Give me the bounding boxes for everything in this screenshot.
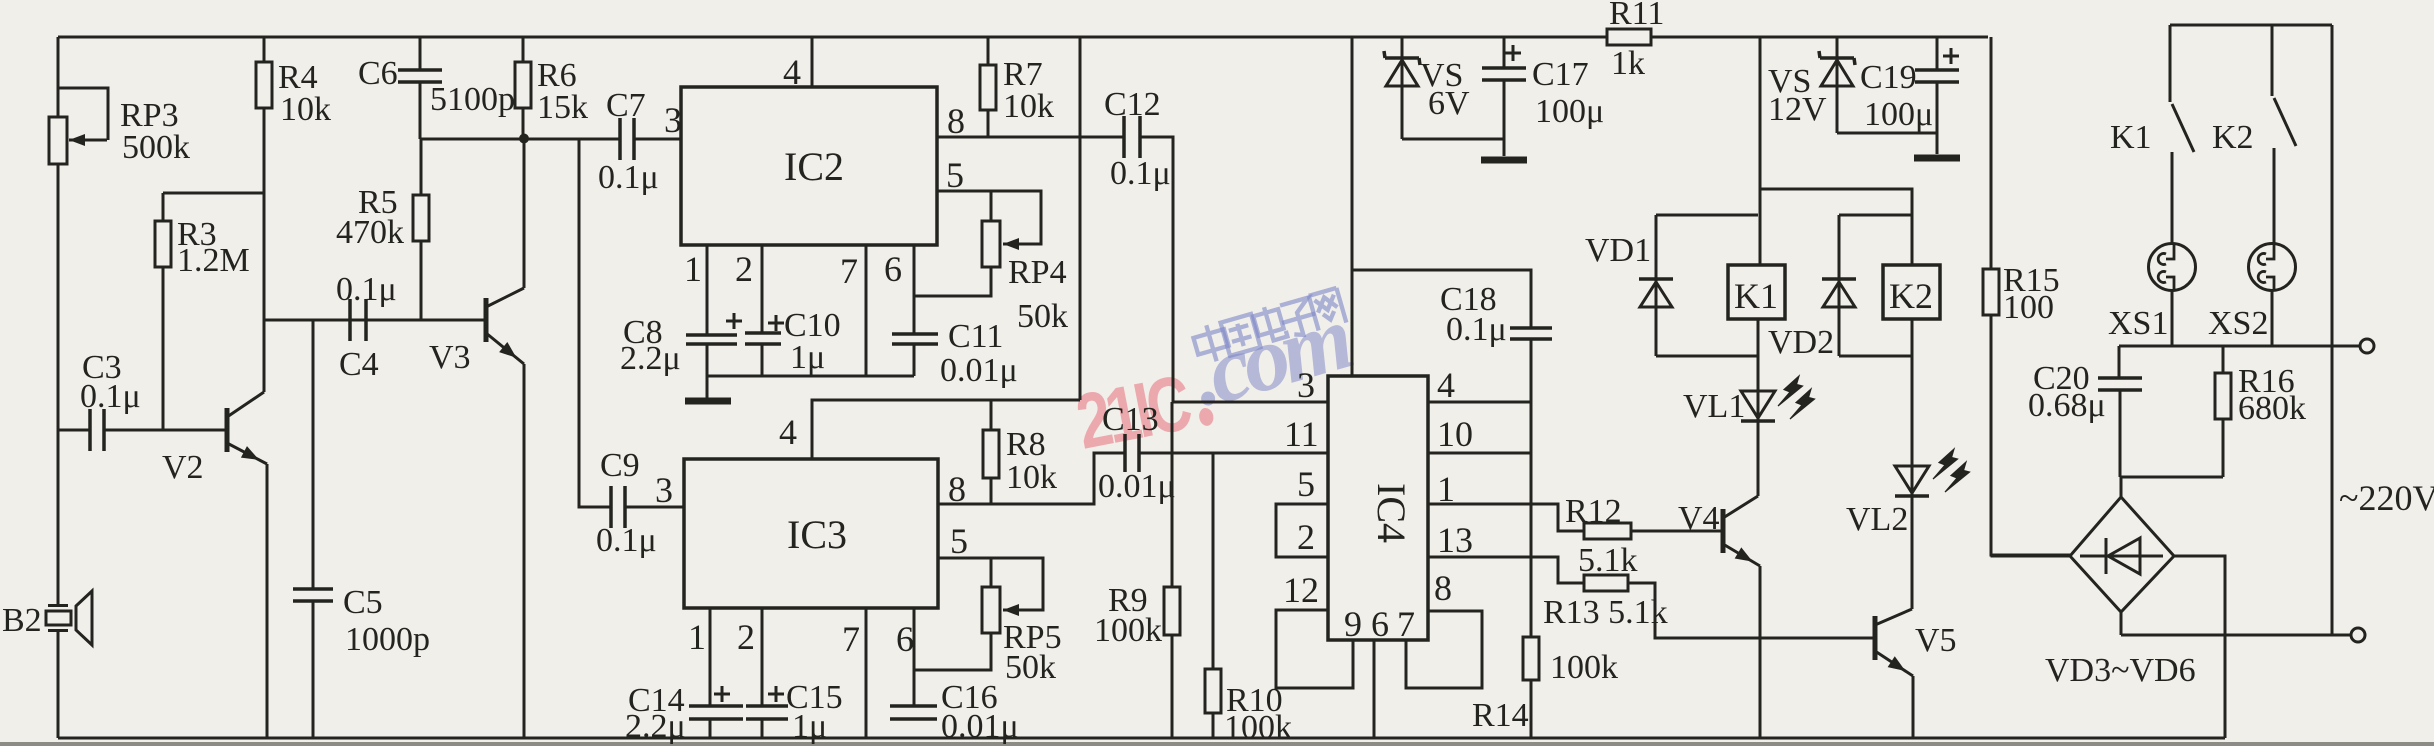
resistor R6 15k bbox=[515, 37, 588, 138]
svg-text:2: 2 bbox=[737, 617, 755, 657]
svg-text:10k: 10k bbox=[1003, 88, 1054, 125]
svg-text:C4: C4 bbox=[339, 346, 379, 383]
svg-text:12V: 12V bbox=[1768, 91, 1827, 128]
svg-text:C17: C17 bbox=[1532, 56, 1589, 93]
svg-text:R11: R11 bbox=[1609, 0, 1664, 32]
socket XS2 bbox=[2208, 244, 2296, 347]
svg-text:C12: C12 bbox=[1104, 86, 1161, 123]
wire supply drop to IC4 top bbox=[1351, 37, 1354, 376]
svg-text:1: 1 bbox=[1437, 469, 1455, 509]
wire bridge left to V5 collector rail bbox=[1992, 555, 2070, 556]
wire bridge right down to ground bus bbox=[2174, 556, 2225, 738]
svg-text:0.01μ: 0.01μ bbox=[1098, 468, 1176, 505]
IC3 pin 4 supply bbox=[779, 400, 1080, 459]
svg-text:11: 11 bbox=[1284, 414, 1319, 454]
IC2 pin 6 bbox=[884, 245, 914, 334]
relay coil K2 bbox=[1883, 265, 1940, 319]
resistor R13 5.1k bbox=[1543, 575, 1875, 638]
svg-text:2.2μ: 2.2μ bbox=[625, 708, 686, 745]
svg-text:R13 5.1k: R13 5.1k bbox=[1543, 594, 1668, 631]
junction node bbox=[519, 134, 529, 144]
svg-text:1k: 1k bbox=[1611, 45, 1645, 82]
IC4 pin 12 loop to pin 9 bbox=[1276, 570, 1362, 688]
wire C6/R6 junction line to C7 and IC2 pin3 bbox=[420, 138, 681, 141]
LED VL2 bbox=[1846, 319, 1970, 609]
IC4 pin 5 / pin 2 loop bbox=[1276, 464, 1328, 557]
relay coil K1 bbox=[1728, 265, 1785, 319]
ground under C8 bbox=[685, 376, 731, 401]
wire top-right switch bus bbox=[2170, 24, 2332, 27]
svg-text:K2: K2 bbox=[1889, 276, 1933, 316]
capacitor C20 0.68u bbox=[2028, 346, 2142, 477]
svg-text:6: 6 bbox=[1371, 604, 1389, 644]
wire IC2 decoupling junction line bbox=[707, 375, 914, 378]
wire collector line y320 bbox=[264, 319, 486, 322]
IC2 pin 8 wire to R7 C12 bbox=[937, 101, 1173, 402]
capacitor C9 0.1u bbox=[596, 447, 684, 559]
svg-text:15k: 15k bbox=[537, 89, 588, 126]
op-amp IC2 bbox=[681, 87, 937, 245]
wire K1-K2 feed bbox=[1760, 189, 1912, 265]
svg-text:VL1: VL1 bbox=[1683, 388, 1745, 425]
IC4 pin 1 wire to R12 bbox=[1428, 469, 1584, 531]
svg-text:8: 8 bbox=[1434, 568, 1452, 608]
svg-text:XS1: XS1 bbox=[2108, 305, 2168, 342]
svg-text:0.01μ: 0.01μ bbox=[940, 352, 1018, 389]
svg-text:6: 6 bbox=[884, 249, 902, 289]
svg-text:10: 10 bbox=[1437, 414, 1473, 454]
svg-text:10k: 10k bbox=[1006, 459, 1057, 496]
resistor R10 100k bbox=[1205, 453, 1292, 746]
capacitor C10 1u bbox=[745, 307, 841, 376]
ground under C17 bbox=[1481, 157, 1527, 164]
svg-text:1000p: 1000p bbox=[345, 621, 430, 658]
svg-text:0.1μ: 0.1μ bbox=[598, 159, 659, 196]
resistor R4 bbox=[256, 37, 331, 320]
svg-text:RP4: RP4 bbox=[1008, 254, 1067, 291]
zener diode VS 12V bbox=[1768, 37, 1937, 133]
capacitor C5 1000p bbox=[293, 320, 430, 738]
capacitor C3 0.1u bbox=[58, 349, 227, 451]
wire C12 drop through R9 bbox=[1171, 402, 1174, 738]
capacitor C12 0.1u bbox=[1104, 86, 1171, 192]
svg-text:7: 7 bbox=[840, 251, 858, 291]
resistor R7 10k bbox=[980, 37, 1054, 137]
transistor V2 bbox=[162, 320, 267, 738]
wire 6V rail drop bbox=[1079, 37, 1082, 400]
svg-text:C7: C7 bbox=[606, 87, 646, 124]
wire top supply bus bbox=[58, 36, 1988, 39]
svg-text:7: 7 bbox=[842, 619, 860, 659]
svg-text:0.1μ: 0.1μ bbox=[596, 522, 657, 559]
IC4 pin 4 bbox=[1428, 365, 1531, 405]
svg-text:C11: C11 bbox=[948, 318, 1003, 355]
potentiometer RP3 bbox=[49, 88, 190, 166]
svg-text:0.68μ: 0.68μ bbox=[2028, 387, 2106, 424]
svg-text:100k: 100k bbox=[1550, 649, 1618, 686]
svg-text:470k: 470k bbox=[336, 214, 404, 251]
bridge rectifier VD3~VD6 bbox=[2045, 497, 2196, 689]
svg-text:8: 8 bbox=[948, 469, 966, 509]
capacitor C13 0.01u bbox=[1098, 401, 1176, 505]
IC2 pin 5 loop to RP4 bbox=[937, 155, 1041, 244]
svg-text:100μ: 100μ bbox=[1864, 96, 1933, 133]
wire right edge drop bbox=[2331, 25, 2334, 635]
timer IC4 bbox=[1328, 376, 1428, 640]
svg-text:V4: V4 bbox=[1678, 500, 1720, 537]
scan page bottom edge bbox=[0, 742, 2434, 746]
svg-text:100μ: 100μ bbox=[1535, 93, 1604, 130]
ground under C19 bbox=[1914, 155, 1960, 162]
zener diode VS 6V bbox=[1384, 37, 1504, 139]
svg-text:0.01μ: 0.01μ bbox=[941, 708, 1019, 745]
svg-text:3: 3 bbox=[664, 100, 682, 140]
svg-text:4: 4 bbox=[1437, 365, 1455, 405]
svg-text:VD2: VD2 bbox=[1768, 324, 1834, 361]
resistor R11 1k bbox=[1607, 0, 1664, 82]
svg-text:5: 5 bbox=[946, 155, 964, 195]
wire bridge top node bbox=[2120, 477, 2223, 497]
IC2 pin 2 bbox=[735, 245, 762, 333]
capacitor C15 1u bbox=[746, 679, 843, 745]
capacitor C6 5100p bbox=[358, 37, 515, 139]
IC2 pin 7 bbox=[840, 245, 866, 376]
IC4 pin 10 bbox=[1428, 414, 1531, 454]
svg-text:V3: V3 bbox=[429, 339, 471, 376]
svg-text:6: 6 bbox=[896, 619, 914, 659]
svg-text:XS2: XS2 bbox=[2208, 305, 2268, 342]
potentiometer RP4 50k bbox=[914, 191, 1068, 335]
svg-text:1: 1 bbox=[688, 617, 706, 657]
capacitor C4 0.1u bbox=[336, 271, 397, 383]
svg-text:12: 12 bbox=[1283, 570, 1319, 610]
resistor R9 100k bbox=[1094, 582, 1180, 649]
wire bottom ground bus bbox=[58, 737, 2225, 740]
svg-text:680k: 680k bbox=[2238, 390, 2306, 427]
svg-text:V5: V5 bbox=[1915, 622, 1957, 659]
AC terminal bottom bbox=[2351, 628, 2365, 642]
IC4 pin 3 bbox=[1172, 365, 1328, 405]
svg-text:5.1k: 5.1k bbox=[1578, 542, 1638, 579]
wire C6 junction down to C9 bbox=[579, 139, 611, 507]
svg-text:C9: C9 bbox=[600, 447, 640, 484]
capacitor C16 0.01u bbox=[890, 679, 1019, 745]
switch K1 bbox=[2110, 25, 2194, 244]
wire R3 top to R4 bbox=[163, 192, 264, 195]
IC3 pin 2 bbox=[737, 608, 762, 706]
transistor V5 bbox=[1875, 609, 1957, 738]
resistor R8 10k bbox=[983, 400, 1057, 504]
svg-text:R8: R8 bbox=[1006, 426, 1046, 463]
svg-text:VL2: VL2 bbox=[1846, 501, 1908, 538]
svg-text:3: 3 bbox=[1297, 365, 1315, 405]
capacitor C14 2.2u bbox=[625, 682, 743, 745]
resistor R5 470k bbox=[336, 139, 429, 320]
svg-text:2: 2 bbox=[1297, 517, 1315, 557]
capacitor C11 0.01u bbox=[892, 318, 1018, 389]
speaker B2 bbox=[2, 591, 92, 645]
svg-text:VD1: VD1 bbox=[1585, 232, 1651, 269]
svg-text:0.1μ: 0.1μ bbox=[1110, 155, 1171, 192]
svg-text:3: 3 bbox=[655, 470, 673, 510]
IC3 pin 6 bbox=[896, 608, 914, 706]
IC4 pin 7 / pin 8 loop bbox=[1397, 568, 1482, 688]
IC2 pin 4 bbox=[783, 38, 812, 92]
switch K2 bbox=[2212, 25, 2296, 244]
capacitor C8 2.2u bbox=[620, 313, 742, 377]
socket XS1 bbox=[2108, 244, 2196, 347]
svg-text:500k: 500k bbox=[122, 129, 190, 166]
svg-text:6V: 6V bbox=[1428, 85, 1470, 122]
IC3 pin 5 loop to RP5 bbox=[938, 521, 1043, 610]
wire left vertical bus bbox=[57, 37, 60, 738]
transistor V4 bbox=[1678, 496, 1760, 738]
capacitor C7 0.1u bbox=[598, 87, 659, 196]
svg-text:8: 8 bbox=[947, 101, 965, 141]
svg-text:4: 4 bbox=[783, 52, 801, 92]
resistor R14 100k bbox=[1472, 637, 1618, 738]
svg-text:B2: B2 bbox=[2, 602, 42, 639]
svg-text:10k: 10k bbox=[280, 91, 331, 128]
svg-text:5100p: 5100p bbox=[430, 81, 515, 118]
wire K1 feed from bus bbox=[1759, 37, 1762, 265]
resistor R12 5.1k bbox=[1565, 493, 1723, 579]
IC3 pin 1 bbox=[688, 608, 710, 706]
svg-text:C5: C5 bbox=[343, 584, 383, 621]
svg-text:IC2: IC2 bbox=[784, 144, 844, 189]
svg-text:0.1μ: 0.1μ bbox=[80, 378, 141, 415]
svg-text:13: 13 bbox=[1437, 520, 1473, 560]
svg-text:4: 4 bbox=[779, 412, 797, 452]
svg-text:C13: C13 bbox=[1102, 401, 1159, 438]
IC4 pin 6 bbox=[1371, 604, 1389, 738]
op-amp IC3 bbox=[684, 459, 938, 608]
svg-text:VD3~VD6: VD3~VD6 bbox=[2045, 652, 2196, 689]
svg-text:R14: R14 bbox=[1472, 697, 1529, 734]
wire C18 top branch bbox=[1352, 270, 1531, 328]
wire AC live line bbox=[2119, 345, 2360, 348]
svg-text:50k: 50k bbox=[1017, 298, 1068, 335]
svg-text:K1: K1 bbox=[2110, 119, 2152, 156]
svg-text:C19: C19 bbox=[1860, 59, 1917, 96]
svg-text:~220V: ~220V bbox=[2339, 478, 2434, 518]
svg-text:K1: K1 bbox=[1734, 276, 1778, 316]
diode VD2 bbox=[1768, 215, 1912, 361]
svg-text:50k: 50k bbox=[1005, 649, 1056, 686]
svg-text:100k: 100k bbox=[1224, 709, 1292, 746]
LED VL1 bbox=[1683, 319, 1815, 496]
AC terminal top bbox=[2360, 339, 2374, 353]
capacitor C17 100u bbox=[1482, 37, 1604, 156]
svg-text:IC3: IC3 bbox=[787, 512, 847, 557]
resistor R16 680k bbox=[2215, 346, 2306, 477]
svg-text:V2: V2 bbox=[162, 449, 204, 486]
svg-text:1: 1 bbox=[684, 249, 702, 289]
svg-text:1μ: 1μ bbox=[790, 339, 825, 376]
IC2 pin 1 bbox=[684, 245, 707, 335]
capacitor C18 0.1u bbox=[1440, 281, 1552, 637]
potentiometer RP5 50k bbox=[914, 558, 1062, 686]
IC4 pin 13 wire to R13 bbox=[1428, 520, 1584, 583]
IC4 pin 11 bbox=[1284, 414, 1319, 454]
IC3 pin 7 bbox=[842, 608, 866, 738]
svg-text:0.1μ: 0.1μ bbox=[1446, 311, 1507, 348]
IC3 pin 8 wire bbox=[938, 453, 1328, 509]
resistor R3 bbox=[155, 193, 250, 430]
svg-text:2.2μ: 2.2μ bbox=[620, 340, 681, 377]
svg-text:IC4: IC4 bbox=[1369, 483, 1414, 543]
svg-text:2: 2 bbox=[735, 249, 753, 289]
transistor V3 bbox=[429, 138, 524, 738]
resistor R15 100 bbox=[1983, 37, 2070, 555]
svg-text:5: 5 bbox=[1297, 464, 1315, 504]
svg-text:1μ: 1μ bbox=[792, 708, 827, 745]
diode VD1 bbox=[1585, 215, 1758, 356]
svg-text:0.1μ: 0.1μ bbox=[336, 271, 397, 308]
svg-text:K2: K2 bbox=[2212, 119, 2254, 156]
svg-text:1.2M: 1.2M bbox=[177, 242, 250, 279]
watermark 21IC.com 中国电子网 bbox=[1070, 286, 1361, 466]
svg-text:C6: C6 bbox=[358, 55, 398, 92]
wire bridge bottom to AC neutral bbox=[2121, 612, 2351, 635]
svg-text:100k: 100k bbox=[1094, 612, 1162, 649]
svg-text:100: 100 bbox=[2003, 289, 2054, 326]
svg-text:9: 9 bbox=[1344, 604, 1362, 644]
svg-text:7: 7 bbox=[1397, 604, 1415, 644]
svg-text:R12: R12 bbox=[1565, 493, 1622, 530]
svg-text:5: 5 bbox=[950, 521, 968, 561]
capacitor C19 100u bbox=[1860, 37, 1959, 154]
